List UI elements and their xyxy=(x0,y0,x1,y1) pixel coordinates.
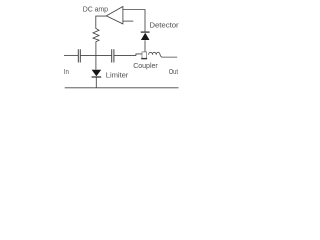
svg-text:Out: Out xyxy=(169,67,179,76)
svg-text:In: In xyxy=(64,67,69,76)
svg-text:Coupler: Coupler xyxy=(133,61,158,70)
svg-text:Detector: Detector xyxy=(149,20,179,29)
svg-text:Limiter: Limiter xyxy=(106,70,129,79)
svg-text:DC amp: DC amp xyxy=(83,5,108,14)
